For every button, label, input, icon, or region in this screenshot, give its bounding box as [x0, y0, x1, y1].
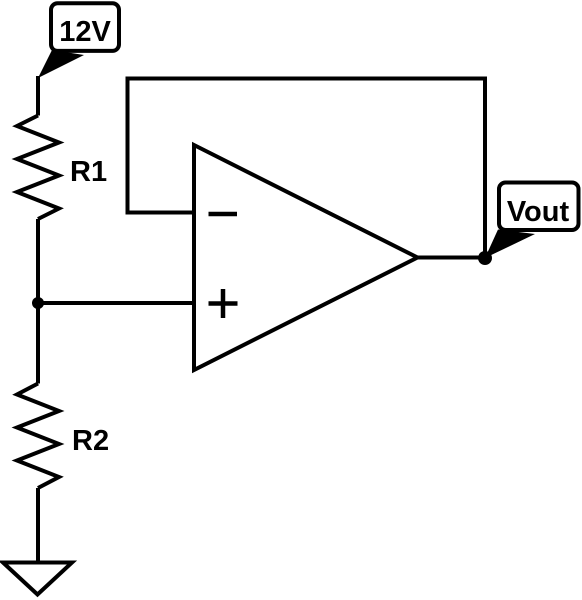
feedback wire from output over the top to inverting input [128, 79, 486, 259]
wire R2 to ground [36, 488, 40, 563]
wire 12V to R1 [36, 76, 40, 116]
node A junction dot [32, 297, 44, 309]
svg-text:Vout: Vout [507, 196, 570, 228]
Vout label [485, 183, 579, 259]
output node dot [478, 251, 492, 265]
resistor R1 [17, 116, 107, 220]
wire R1 to node A [36, 219, 40, 303]
svg-text:R2: R2 [72, 425, 109, 457]
wire node A to R2 [36, 303, 40, 384]
supply label 12V [38, 3, 119, 78]
op-amp U1 [194, 145, 418, 370]
wire node A to op-amp + input [38, 301, 194, 305]
wire op-amp output [418, 256, 486, 260]
op-amp inverting input minus marker [209, 212, 238, 217]
op-amp non-inverting input plus marker [209, 289, 238, 318]
resistor R2 [17, 384, 109, 489]
svg-text:R1: R1 [70, 156, 107, 188]
ground [3, 563, 72, 595]
svg-text:12V: 12V [59, 16, 111, 48]
